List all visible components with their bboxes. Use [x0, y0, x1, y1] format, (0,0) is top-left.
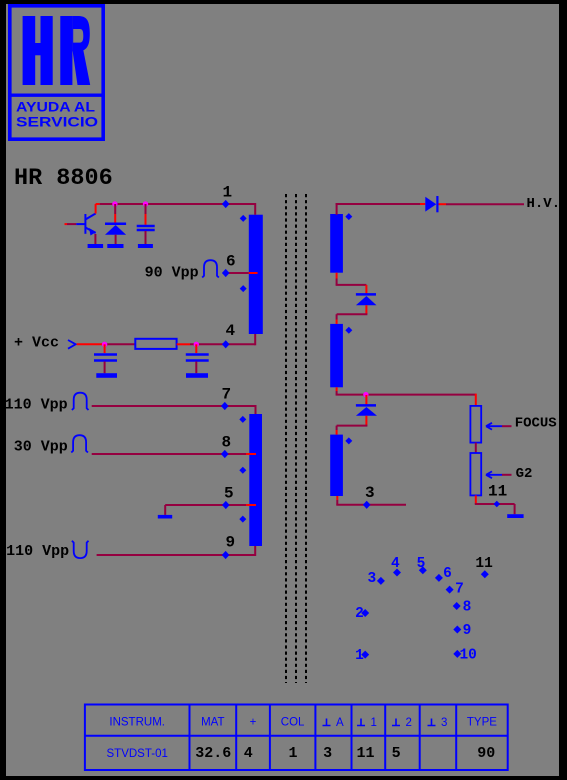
- svg-text:SERVICIO: SERVICIO: [16, 114, 98, 129]
- ground pin 11: [507, 514, 523, 518]
- ground pin 5: [158, 515, 172, 519]
- wire diode D1 lead: [114, 204, 116, 214]
- tap diamond WA: [345, 213, 352, 220]
- ground under D1: [107, 244, 123, 248]
- pin dot 5: [419, 566, 427, 574]
- winding W1 primary left top: [249, 215, 263, 334]
- pinout diagram: [361, 566, 489, 658]
- pin dot 10: [453, 650, 461, 658]
- node junction C: [102, 342, 107, 347]
- ground under C2: [96, 373, 117, 378]
- pin 3: [363, 501, 371, 509]
- tap diamond WB: [345, 327, 352, 334]
- svg-text:1: 1: [371, 717, 377, 729]
- svg-text:7: 7: [455, 582, 464, 598]
- svg-text:H.V.: H.V.: [527, 196, 561, 212]
- wire HV rail: [336, 203, 420, 205]
- input arrow: [68, 340, 76, 349]
- node junction D: [194, 342, 199, 347]
- pin dot 11: [481, 570, 489, 578]
- wire resistor to pin 4: [177, 343, 190, 345]
- svg-text:STVDST-01: STVDST-01: [107, 748, 168, 760]
- pin 4: [222, 340, 230, 348]
- svg-text:3: 3: [323, 745, 332, 762]
- svg-text:MAT: MAT: [201, 717, 224, 729]
- header bottom-tack symbols: [323, 719, 436, 726]
- wire D4 to WC: [337, 425, 368, 427]
- pin dot 6: [435, 574, 443, 582]
- pin dot 2: [361, 609, 369, 617]
- tap diamond W2 b: [239, 467, 246, 474]
- pin 6: [222, 269, 230, 277]
- pin dot 3: [377, 577, 385, 585]
- svg-text:5: 5: [417, 556, 426, 572]
- winding W2 left bottom: [249, 414, 262, 546]
- wire pin 8: [92, 453, 246, 455]
- wire pin 11: [475, 503, 515, 505]
- svg-text:8: 8: [222, 433, 232, 451]
- svg-text:4: 4: [226, 322, 236, 340]
- wire Vcc red: [77, 343, 105, 345]
- node junction B: [143, 201, 148, 206]
- winding WA right top: [330, 214, 343, 273]
- tap diamond W1 bottom: [240, 285, 247, 292]
- node junction A: [112, 201, 117, 206]
- svg-text:3: 3: [441, 717, 447, 729]
- arrow FOCUS: [486, 423, 502, 430]
- svg-text:1: 1: [223, 184, 233, 202]
- svg-text:4: 4: [244, 745, 253, 762]
- ground under C1: [138, 244, 153, 248]
- wire D3 to WB: [337, 313, 368, 315]
- capacitor C1: [137, 225, 155, 228]
- capacitor C2 lead: [104, 344, 106, 353]
- transistor Q1: [76, 214, 95, 234]
- wire between resistors: [475, 443, 477, 453]
- pin dot 4: [393, 569, 401, 577]
- svg-text:8: 8: [463, 599, 472, 615]
- svg-text:G2: G2: [516, 466, 533, 482]
- wire pin 3: [336, 496, 338, 500]
- logo letter R: [60, 16, 90, 85]
- ground under C3: [186, 373, 208, 378]
- svg-text:+ Vcc: + Vcc: [14, 335, 59, 352]
- svg-text:10: 10: [459, 647, 476, 663]
- logo letter H: [23, 16, 53, 85]
- svg-text:90 Vpp: 90 Vpp: [145, 265, 199, 282]
- svg-text:TYPE: TYPE: [467, 717, 497, 729]
- arc symbol 90 Vpp: [202, 260, 219, 277]
- svg-text:1: 1: [288, 745, 297, 762]
- svg-text:6: 6: [226, 252, 236, 270]
- wire WB bottom: [336, 387, 338, 391]
- svg-text:11: 11: [356, 745, 374, 762]
- svg-text:4: 4: [391, 556, 400, 572]
- svg-text:11: 11: [488, 483, 507, 501]
- pin 11: [494, 501, 501, 508]
- table: [85, 705, 508, 771]
- svg-text:A: A: [336, 717, 344, 729]
- svg-text:11: 11: [475, 556, 493, 572]
- pin dot 9: [453, 626, 461, 634]
- wire pin 7: [92, 405, 256, 407]
- svg-text:9: 9: [463, 623, 472, 639]
- svg-text:5: 5: [224, 484, 234, 502]
- svg-text:+: +: [250, 717, 257, 729]
- svg-text:1: 1: [355, 648, 364, 664]
- svg-text:INSTRUM.: INSTRUM.: [109, 717, 165, 729]
- transformer core (dashed lines): [286, 194, 306, 683]
- tap diamond WC: [345, 437, 352, 444]
- pin dot 7: [446, 586, 454, 594]
- arrow G2: [486, 471, 502, 478]
- wire top rail: [96, 203, 100, 205]
- svg-text:AYUDA AL: AYUDA AL: [16, 100, 95, 115]
- diode D4: [356, 404, 376, 407]
- capacitor C2: [94, 353, 117, 356]
- wire junction to D4: [365, 395, 367, 405]
- svg-text:5: 5: [392, 745, 401, 762]
- tap diamond W1 top: [240, 215, 247, 222]
- svg-text:90: 90: [477, 745, 495, 762]
- wire pin 5: [165, 504, 246, 506]
- winding WC right bottom: [330, 435, 343, 496]
- svg-text:7: 7: [222, 386, 232, 404]
- resistor R1: [135, 339, 176, 349]
- capacitor C3: [186, 353, 209, 356]
- arc symbol 30 Vpp: [71, 435, 88, 452]
- wire base lead: [65, 223, 68, 225]
- ground under transistor: [88, 244, 104, 248]
- pin 7: [221, 402, 229, 410]
- pin dot 1: [361, 651, 369, 659]
- wire pin 6: [226, 272, 249, 274]
- svg-text:30 Vpp: 30 Vpp: [14, 439, 68, 456]
- diode D3: [356, 293, 376, 296]
- svg-text:2: 2: [406, 717, 412, 729]
- svg-text:COL: COL: [281, 717, 305, 729]
- wire pin 9: [97, 554, 256, 556]
- winding WB right middle: [330, 324, 343, 387]
- svg-text:3: 3: [365, 484, 375, 502]
- pin 5: [222, 501, 230, 509]
- resistor R3 G2: [470, 453, 481, 495]
- wire capacitor C1 lead: [145, 204, 147, 214]
- svg-text:FOCUS: FOCUS: [515, 416, 557, 432]
- pin 9: [222, 551, 230, 559]
- diode D2 HV: [425, 197, 436, 212]
- pin 1: [222, 200, 230, 208]
- table values: [195, 745, 495, 762]
- svg-text:110 Vpp: 110 Vpp: [6, 543, 69, 560]
- pin 8: [221, 450, 229, 458]
- wire to resistor chain: [475, 394, 477, 406]
- svg-text:HR 8806: HR 8806: [14, 165, 113, 192]
- logo box HR: [8, 6, 105, 139]
- diode D1 damper: [105, 223, 126, 226]
- svg-text:3: 3: [367, 571, 376, 587]
- svg-text:32.6: 32.6: [195, 745, 231, 762]
- svg-text:2: 2: [355, 606, 364, 622]
- capacitor C3 lead: [195, 344, 197, 353]
- svg-text:6: 6: [443, 566, 452, 582]
- tap diamond W2 c: [239, 516, 246, 523]
- tap diamond W2 a: [239, 416, 246, 423]
- wire collector red: [95, 204, 97, 214]
- table header: [109, 717, 497, 729]
- pin dot 8: [453, 602, 461, 610]
- resistor R2 FOCUS: [470, 406, 481, 443]
- wire WA top lead: [336, 203, 338, 215]
- node junction E: [363, 392, 368, 397]
- wire WA bottom to D3: [336, 273, 338, 279]
- wire emitter to ground: [94, 234, 96, 244]
- arc symbol 110 Vpp: [72, 393, 89, 410]
- svg-text:9: 9: [226, 534, 236, 552]
- svg-text:110 Vpp: 110 Vpp: [5, 396, 68, 413]
- arc symbol 110 Vpp inverted: [72, 541, 89, 558]
- logo text AYUDA AL SERVICIO: [16, 100, 98, 130]
